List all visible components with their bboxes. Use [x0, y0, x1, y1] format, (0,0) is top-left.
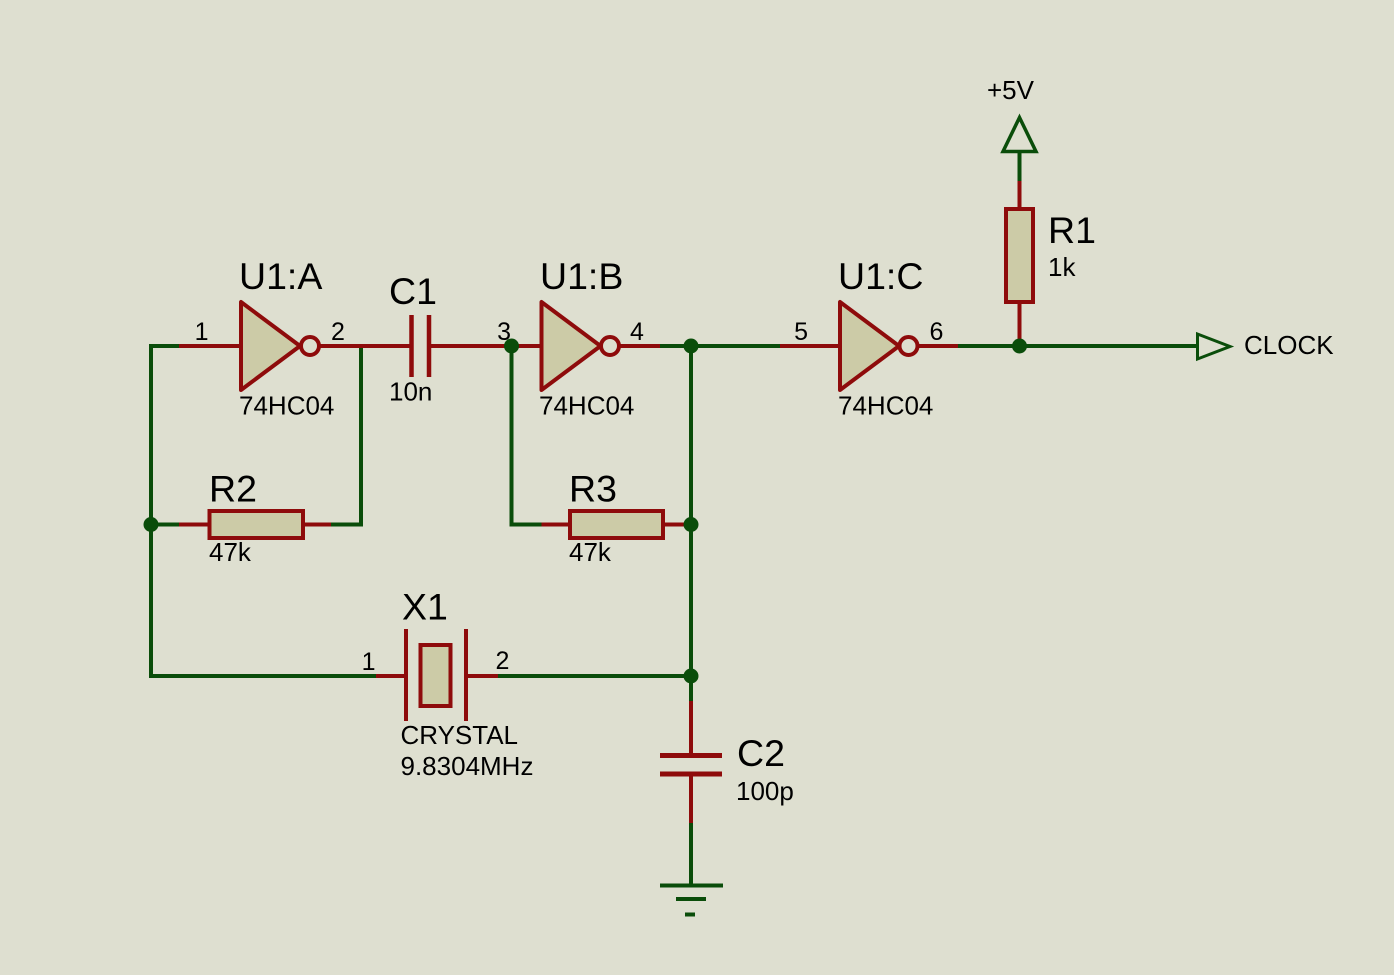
pin 1 stub of U1:A: [179, 344, 241, 348]
junction node 6 / R1: [1012, 339, 1027, 354]
pin 2 stub of U1:A to C1 left plate: [319, 344, 412, 348]
wire: node 4 horizontal segment to U1:C input: [660, 344, 780, 348]
wire: riser from node 2 down to R2 right pin: [329, 346, 361, 525]
wire: U1:C output to CLOCK terminal: [958, 344, 1197, 348]
svg-text:X1: X1: [402, 586, 448, 628]
pin 4 stub of U1:B: [619, 344, 660, 348]
svg-text:6: 6: [930, 318, 944, 346]
pin: C2 top stub: [689, 701, 693, 753]
svg-text:+5V: +5V: [987, 75, 1035, 105]
pin: R2 right stub: [301, 523, 331, 527]
crystal X1: [406, 629, 466, 721]
svg-text:C1: C1: [389, 270, 437, 312]
svg-text:U1:A: U1:A: [239, 255, 322, 297]
resistor R3: [570, 511, 663, 538]
resistor R2: [210, 511, 304, 538]
svg-text:10n: 10n: [389, 377, 432, 407]
wire: vertical net at x=691 (node4 / R3 / X1 / C2): [689, 346, 693, 703]
svg-text:R1: R1: [1048, 209, 1096, 251]
svg-text:74HC04: 74HC04: [838, 391, 933, 421]
svg-text:U1:B: U1:B: [540, 255, 623, 297]
svg-text:1: 1: [195, 318, 209, 346]
svg-text:U1:C: U1:C: [838, 255, 923, 297]
wire: left feedback loop (node 1 to X1 pin1): [151, 346, 378, 676]
svg-text:100p: 100p: [736, 776, 794, 806]
pin: R3 right stub: [661, 523, 691, 527]
pin: R3 left stub: [542, 523, 573, 527]
terminal CLOCK: [1198, 334, 1231, 359]
svg-text:47k: 47k: [209, 537, 252, 567]
ground: [660, 886, 723, 915]
pin: R1 top stub: [1018, 181, 1022, 210]
svg-text:9.8304MHz: 9.8304MHz: [401, 751, 534, 781]
resistor R1: [1006, 209, 1033, 302]
pin: C1 right plate to U1:B input pin 3: [429, 344, 543, 348]
inverter U1:A: [241, 302, 319, 390]
junction node 3: [504, 339, 519, 354]
svg-text:CLOCK: CLOCK: [1244, 330, 1334, 360]
svg-text:5: 5: [794, 318, 808, 346]
capacitor C2: [660, 756, 722, 775]
svg-text:1k: 1k: [1048, 252, 1076, 282]
pin 5 stub of U1:C: [780, 344, 841, 348]
svg-text:1: 1: [362, 648, 376, 676]
svg-text:74HC04: 74HC04: [539, 391, 634, 421]
wire: riser from node 3 down to R3 left pin: [512, 346, 544, 525]
pin 1 stub of X1: [376, 674, 404, 678]
capacitor C1: [412, 315, 430, 377]
svg-text:R2: R2: [209, 468, 257, 510]
wire: +5V symbol to R1 top: [1018, 150, 1022, 183]
svg-text:74HC04: 74HC04: [239, 391, 334, 421]
svg-text:2: 2: [331, 318, 345, 346]
power +5V symbol: [1003, 118, 1036, 152]
pin 6 stub of U1:C: [917, 344, 958, 348]
wire: C2 bottom to ground: [689, 821, 693, 885]
svg-text:C2: C2: [737, 732, 785, 774]
svg-text:47k: 47k: [569, 537, 612, 567]
pin: C2 bottom stub: [689, 776, 693, 823]
junction X1 / C2: [684, 669, 699, 684]
svg-text:CRYSTAL: CRYSTAL: [401, 720, 519, 750]
junction R2 left: [144, 517, 159, 532]
inverter U1:B: [542, 302, 620, 390]
inverter U1:C: [840, 302, 918, 390]
pin: R2 left stub: [179, 523, 211, 527]
pin 2 stub of X1: [468, 674, 498, 678]
wire: X1 pin2 to vertical net: [498, 674, 691, 678]
junction node 4: [684, 339, 699, 354]
pin: R1 bottom stub to node: [1018, 301, 1022, 346]
wire: R2 left green stub: [151, 523, 181, 527]
svg-text:4: 4: [630, 318, 644, 346]
svg-text:R3: R3: [569, 468, 617, 510]
junction R3 right: [684, 517, 699, 532]
svg-text:2: 2: [496, 647, 510, 675]
